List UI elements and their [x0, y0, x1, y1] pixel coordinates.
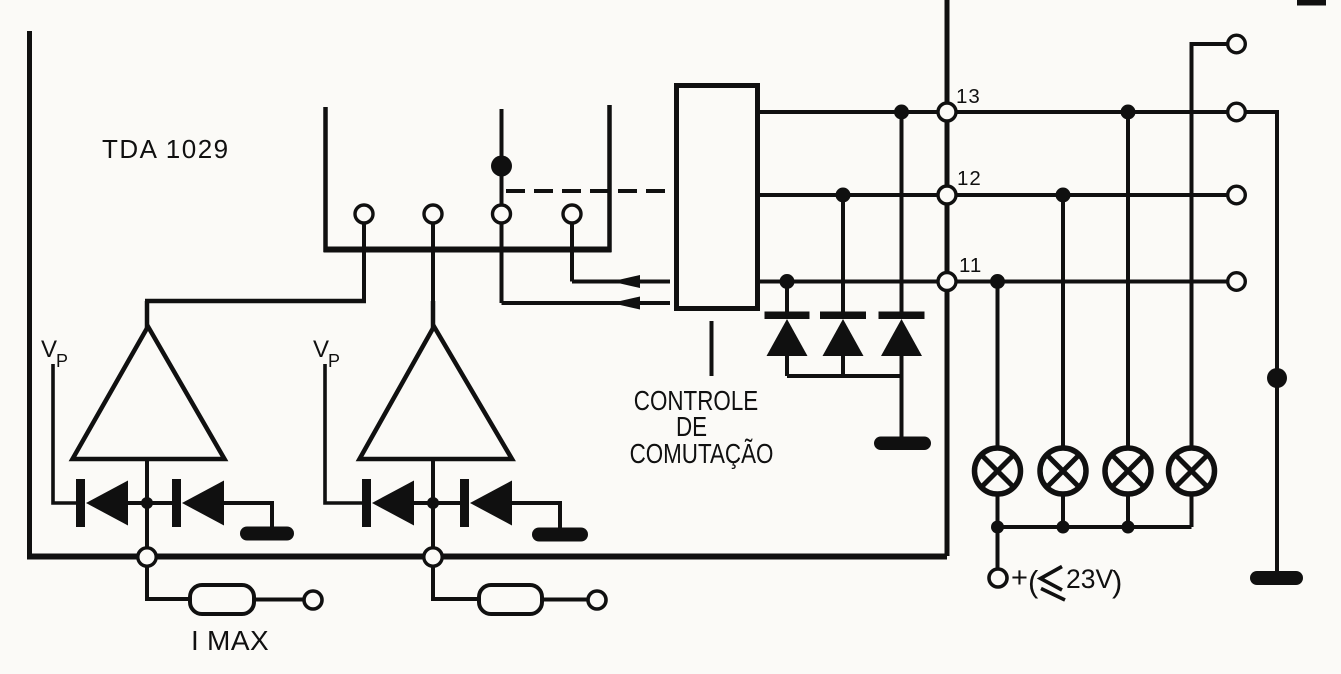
wire: control line B (to S3) with arrowhead: [502, 301, 671, 305]
lamp L3: [1105, 448, 1151, 494]
svg-text:COMUTAÇÃO: COMUTAÇÃO: [630, 438, 774, 470]
svg-text:13: 13: [956, 85, 981, 108]
wire: R2 to terminal: [542, 598, 587, 602]
wire: lamp L4 bottom lead: [1190, 496, 1194, 527]
label +(<=23V): [1011, 562, 1122, 599]
svg-text:I: I: [191, 625, 199, 656]
junction manifold L3: [1122, 521, 1135, 534]
wire: dropper net13 down to lamp L3: [1126, 112, 1130, 446]
wire: switch frame left post: [323, 107, 328, 252]
op-amp A1: [73, 327, 225, 460]
node: pin 13 connector circle: [938, 103, 956, 121]
wire: contact S3 stem down: [500, 222, 504, 303]
wire: Vp lead to D6 (A2): [325, 364, 366, 503]
terminal: net 11 output: [1228, 273, 1246, 291]
control block U1: [677, 86, 758, 309]
node: pin 12 connector circle: [938, 186, 956, 204]
diode D2: [820, 312, 866, 377]
diode D4 (series pair under A1): [76, 479, 128, 527]
label Vp (A1): [41, 336, 68, 371]
wire: Vp lead to D4 (A1): [53, 364, 80, 503]
wire: lamp L3 bottom lead: [1126, 496, 1130, 527]
wire: op-amp A2 input stem from S2: [431, 301, 436, 332]
wire: top edge fragment: [1297, 0, 1326, 6]
diode D1 (cathode bar + up triangle): [765, 312, 810, 377]
diode D3: [879, 312, 925, 377]
node N2 on bus: [424, 548, 442, 566]
wire: pointer from block to label: [710, 321, 714, 376]
wire: lamp L2 bottom lead: [1061, 496, 1065, 527]
resistor R1: [190, 585, 254, 614]
wire: dropper net12 to diode D2: [841, 195, 845, 313]
diode D5: [172, 479, 224, 527]
wire: D7 to ground G4: [510, 503, 560, 529]
diode D7: [460, 479, 512, 527]
junction on net 11 at D1: [780, 274, 795, 289]
svg-text:V: V: [313, 336, 329, 363]
wire: contact S3 stem up (wiper drive): [500, 109, 504, 206]
wire: op-amp A1 input stem: [145, 301, 150, 330]
node: pin 11 connector circle: [938, 273, 956, 291]
node N1 on bus: [138, 548, 156, 566]
wire: top terminal lead over and down to lamp L4: [1192, 44, 1228, 446]
label Vp (A2): [313, 336, 340, 371]
lamp L4: [1169, 448, 1215, 494]
svg-text:(: (: [1028, 564, 1039, 599]
wire: D5 to ground G3: [222, 503, 272, 528]
op-amp A2: [360, 327, 513, 460]
wire: lamp common manifold: [998, 525, 1192, 529]
diode D6 (series pair under A2): [362, 479, 414, 527]
terminal: output top right: [1228, 35, 1246, 53]
svg-text:V: V: [41, 336, 57, 363]
svg-text:23V: 23V: [1066, 564, 1113, 594]
junction dot on far right drop: [1267, 368, 1287, 388]
lamp L2: [1040, 448, 1086, 494]
wire: D4 to D5: [126, 501, 176, 505]
wire: A1 output down to bus node: [145, 459, 149, 549]
wire: A2 output down to bus node: [431, 459, 435, 549]
wire: R1 to terminal: [254, 598, 303, 602]
wire: bottom common bus: [27, 554, 947, 560]
junction: A1 output / diode midpoint: [141, 497, 153, 509]
wire: N2 down to resistor R2: [433, 567, 479, 599]
switch contact S3: [493, 205, 511, 223]
svg-text:12: 12: [957, 167, 982, 190]
wire: connector down to ground G2: [900, 376, 904, 437]
ground G2: [874, 437, 931, 451]
wire: contact S2 stem down to op-amp A2 input: [431, 222, 435, 327]
svg-text:): ): [1112, 564, 1122, 599]
terminal: net 12 output: [1228, 186, 1246, 204]
junction: A2 output / diode midpoint: [427, 497, 439, 509]
wire: D6 to D7: [412, 501, 464, 505]
svg-text:MAX: MAX: [207, 625, 269, 656]
label: CONTROLE DE COMUTACAO: [630, 386, 774, 470]
terminal: IMAX adjust (A1): [304, 591, 322, 609]
wire: dropper net11 down to lamp L1: [996, 282, 1000, 447]
wire: switch common bar: [324, 247, 612, 253]
svg-text:+: +: [1011, 562, 1028, 594]
ground G4: [532, 528, 588, 542]
wire: switch frame right post: [607, 105, 612, 252]
wire: diode anodes connector: [787, 374, 902, 378]
svg-text:TDA 1029: TDA 1029: [102, 134, 230, 164]
wire: contact S4 stem down: [570, 222, 574, 282]
wire: dashed mechanical link to control block: [506, 189, 677, 193]
switch contact S4: [563, 205, 581, 223]
wire: S1 link over to op-amp A1 input: [145, 299, 366, 304]
switch contact S1: [355, 205, 373, 223]
junction net12 / L2: [1056, 188, 1071, 203]
resistor R2: [479, 585, 542, 614]
wire: dropper net12 down to lamp L2: [1061, 195, 1065, 446]
wire: net13 terminal to far right drop: [1246, 112, 1277, 571]
junction manifold L2: [1057, 521, 1070, 534]
wire: N1 down to resistor R1: [147, 567, 190, 599]
wire: net 12 from control block to terminal: [757, 193, 1228, 197]
lamp L1: [975, 448, 1021, 494]
junction net13 / L3: [1121, 105, 1136, 120]
wire: net 11 from control block to terminal: [757, 280, 1228, 284]
terminal: IMAX adjust (A2): [588, 591, 606, 609]
wire: lamp L1 bottom lead: [996, 496, 1000, 568]
wire: contact S1 stem down to op-amp A1 link: [362, 222, 366, 303]
svg-text:11: 11: [959, 254, 982, 277]
junction net11 / L1: [990, 274, 1005, 289]
junction on net 13 at D3: [894, 105, 909, 120]
svg-text:P: P: [56, 351, 68, 371]
terminal: net 13 output: [1228, 103, 1246, 121]
label IMAX: [191, 625, 269, 656]
svg-text:P: P: [328, 351, 340, 371]
wire: left Vp supply rail: [27, 31, 32, 556]
junction manifold L1: [991, 521, 1004, 534]
wire: control line A (to S4) with arrowhead: [572, 280, 670, 284]
label: less-or-equal glyph: [1041, 567, 1066, 601]
terminal: +23V supply: [989, 569, 1007, 587]
wire: main vertical riser to pins 13/12/11: [945, 0, 950, 556]
switch contact S2: [424, 205, 442, 223]
wire: dropper net11 to diode D1: [785, 282, 789, 314]
ground G3: [240, 527, 294, 541]
ground G1 (far right): [1250, 571, 1303, 585]
junction: switch actuator dot: [491, 156, 512, 177]
junction on net 12 at D2: [836, 188, 851, 203]
wire: dropper net13 to diode D3: [900, 112, 904, 313]
wire: net 13 from control block to terminal: [757, 110, 1277, 114]
